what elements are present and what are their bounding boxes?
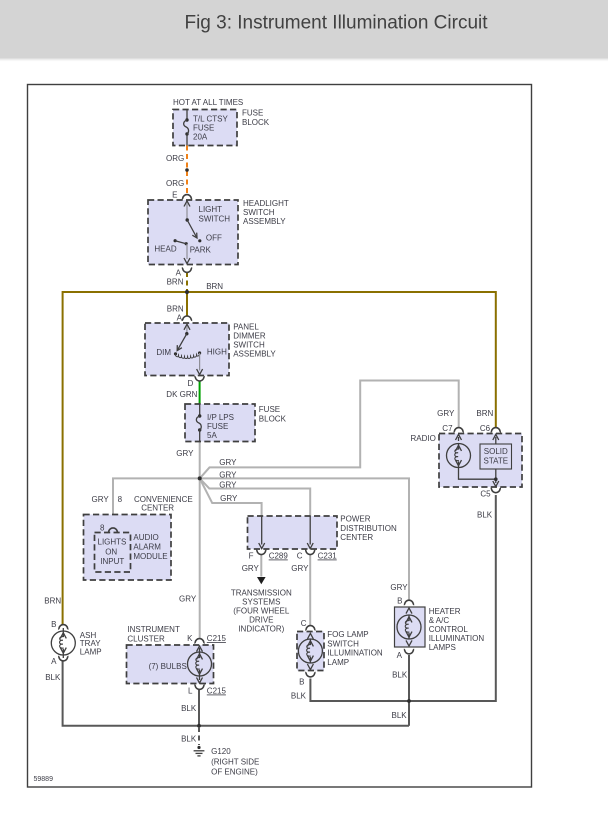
svg-text:ILLUMINATION: ILLUMINATION bbox=[327, 649, 383, 658]
svg-text:BLK: BLK bbox=[477, 511, 493, 520]
svg-text:FUSE: FUSE bbox=[259, 405, 280, 414]
svg-text:LAMP: LAMP bbox=[80, 648, 102, 657]
svg-text:AUDIO: AUDIO bbox=[133, 533, 158, 542]
svg-text:BLK: BLK bbox=[291, 691, 307, 700]
svg-text:ASSEMBLY: ASSEMBLY bbox=[243, 217, 286, 226]
svg-text:BRN: BRN bbox=[44, 597, 61, 606]
svg-text:BRN: BRN bbox=[167, 278, 184, 287]
svg-text:GRY: GRY bbox=[219, 481, 237, 490]
svg-text:TRANSMISSION: TRANSMISSION bbox=[231, 589, 292, 598]
svg-text:BLK: BLK bbox=[181, 704, 197, 713]
svg-text:T/L CTSY: T/L CTSY bbox=[193, 115, 228, 124]
svg-text:Fig 3: Instrument Illumination: Fig 3: Instrument Illumination Circuit bbox=[184, 13, 488, 34]
svg-text:BLK: BLK bbox=[45, 673, 61, 682]
svg-text:LIGHTS: LIGHTS bbox=[98, 538, 127, 547]
svg-text:DISTRIBUTION: DISTRIBUTION bbox=[340, 524, 397, 533]
svg-text:ORG: ORG bbox=[166, 154, 184, 163]
svg-text:BRN: BRN bbox=[167, 305, 184, 314]
svg-text:GRY: GRY bbox=[437, 409, 455, 418]
svg-text:GRY: GRY bbox=[91, 495, 109, 504]
svg-text:ON: ON bbox=[105, 548, 117, 557]
svg-text:A: A bbox=[51, 657, 57, 666]
svg-text:SWITCH: SWITCH bbox=[327, 640, 359, 649]
svg-text:C7: C7 bbox=[442, 424, 453, 433]
svg-text:E: E bbox=[172, 191, 177, 200]
svg-text:ASSEMBLY: ASSEMBLY bbox=[233, 350, 276, 359]
svg-text:LAMP: LAMP bbox=[327, 658, 349, 667]
svg-text:CLUSTER: CLUSTER bbox=[127, 634, 165, 643]
svg-text:GRY: GRY bbox=[220, 494, 238, 503]
svg-text:(RIGHT SIDE: (RIGHT SIDE bbox=[211, 758, 259, 767]
svg-text:PARK: PARK bbox=[190, 246, 212, 255]
svg-text:G120: G120 bbox=[211, 747, 231, 756]
svg-text:RADIO: RADIO bbox=[411, 434, 436, 443]
svg-text:C289: C289 bbox=[269, 552, 289, 561]
svg-text:20A: 20A bbox=[193, 133, 208, 142]
svg-text:GRY: GRY bbox=[242, 564, 260, 573]
svg-text:GRY: GRY bbox=[176, 449, 194, 458]
svg-text:5A: 5A bbox=[207, 431, 217, 440]
svg-text:L: L bbox=[188, 687, 193, 696]
svg-text:SWITCH: SWITCH bbox=[199, 215, 231, 224]
svg-text:POWER: POWER bbox=[340, 515, 370, 524]
svg-text:C231: C231 bbox=[318, 552, 338, 561]
svg-text:C215: C215 bbox=[207, 634, 227, 643]
svg-text:C: C bbox=[301, 619, 307, 628]
svg-text:GRY: GRY bbox=[219, 458, 237, 467]
svg-text:OF ENGINE): OF ENGINE) bbox=[211, 768, 258, 777]
svg-text:GRY: GRY bbox=[219, 470, 237, 479]
svg-text:C6: C6 bbox=[480, 424, 491, 433]
svg-text:(7) BULBS: (7) BULBS bbox=[149, 662, 187, 671]
svg-text:BLOCK: BLOCK bbox=[259, 415, 287, 424]
svg-text:(FOUR WHEEL: (FOUR WHEEL bbox=[233, 607, 290, 616]
svg-text:DRIVE: DRIVE bbox=[249, 616, 273, 625]
svg-text:PANEL: PANEL bbox=[233, 323, 259, 332]
svg-text:C: C bbox=[297, 552, 303, 561]
svg-text:INPUT: INPUT bbox=[100, 557, 124, 566]
svg-text:F: F bbox=[249, 552, 254, 561]
svg-text:GRY: GRY bbox=[291, 564, 309, 573]
svg-text:STATE: STATE bbox=[484, 456, 509, 465]
svg-text:INSTRUMENT: INSTRUMENT bbox=[127, 625, 180, 634]
svg-text:8: 8 bbox=[100, 524, 105, 533]
svg-text:B: B bbox=[397, 596, 402, 605]
svg-text:HEATER: HEATER bbox=[429, 607, 461, 616]
svg-text:A: A bbox=[397, 651, 403, 660]
svg-text:FUSE: FUSE bbox=[207, 422, 228, 431]
svg-text:MODULE: MODULE bbox=[133, 552, 167, 561]
svg-text:GRY: GRY bbox=[390, 583, 408, 592]
svg-text:CENTER: CENTER bbox=[340, 533, 373, 542]
svg-text:FOG LAMP: FOG LAMP bbox=[327, 630, 368, 639]
svg-text:HIGH: HIGH bbox=[207, 348, 227, 357]
svg-text:BRN: BRN bbox=[206, 282, 223, 291]
svg-text:HEADLIGHT: HEADLIGHT bbox=[243, 199, 289, 208]
svg-text:BLK: BLK bbox=[181, 735, 197, 744]
svg-text:C215: C215 bbox=[207, 687, 227, 696]
svg-text:HOT AT ALL TIMES: HOT AT ALL TIMES bbox=[173, 98, 243, 107]
svg-text:LIGHT: LIGHT bbox=[199, 205, 223, 214]
svg-text:SWITCH: SWITCH bbox=[233, 341, 265, 350]
svg-text:D: D bbox=[188, 379, 194, 388]
svg-text:GRY: GRY bbox=[179, 595, 197, 604]
svg-text:DK GRN: DK GRN bbox=[166, 390, 197, 399]
svg-text:ALARM: ALARM bbox=[133, 543, 161, 552]
svg-text:ORG: ORG bbox=[166, 179, 184, 188]
svg-text:INDICATOR): INDICATOR) bbox=[238, 625, 284, 634]
svg-text:BLK: BLK bbox=[392, 711, 408, 720]
svg-text:& A/C: & A/C bbox=[429, 616, 450, 625]
svg-text:FUSE: FUSE bbox=[193, 124, 214, 133]
svg-text:59889: 59889 bbox=[34, 776, 54, 783]
svg-text:OFF: OFF bbox=[206, 234, 222, 243]
svg-text:SYSTEMS: SYSTEMS bbox=[242, 598, 280, 607]
svg-text:BRN: BRN bbox=[476, 409, 493, 418]
svg-text:B: B bbox=[299, 677, 304, 686]
svg-text:CENTER: CENTER bbox=[141, 504, 174, 513]
svg-text:B: B bbox=[51, 620, 56, 629]
svg-text:ILLUMINATION: ILLUMINATION bbox=[429, 634, 485, 643]
svg-text:A: A bbox=[177, 314, 183, 323]
svg-text:8: 8 bbox=[118, 495, 123, 504]
svg-text:HEAD: HEAD bbox=[154, 245, 176, 254]
svg-text:I/P LPS: I/P LPS bbox=[207, 413, 234, 422]
svg-text:BLOCK: BLOCK bbox=[242, 118, 270, 127]
svg-text:CONTROL: CONTROL bbox=[429, 625, 469, 634]
svg-text:A: A bbox=[176, 269, 182, 278]
svg-text:BLK: BLK bbox=[392, 671, 408, 680]
svg-text:SWITCH: SWITCH bbox=[243, 208, 275, 217]
svg-text:FUSE: FUSE bbox=[242, 109, 263, 118]
svg-text:LAMPS: LAMPS bbox=[429, 643, 456, 652]
svg-text:SOLID: SOLID bbox=[484, 447, 508, 456]
svg-text:C5: C5 bbox=[480, 490, 491, 499]
svg-text:DIMMER: DIMMER bbox=[233, 332, 266, 341]
svg-text:DIM: DIM bbox=[156, 348, 171, 357]
svg-text:K: K bbox=[187, 634, 193, 643]
